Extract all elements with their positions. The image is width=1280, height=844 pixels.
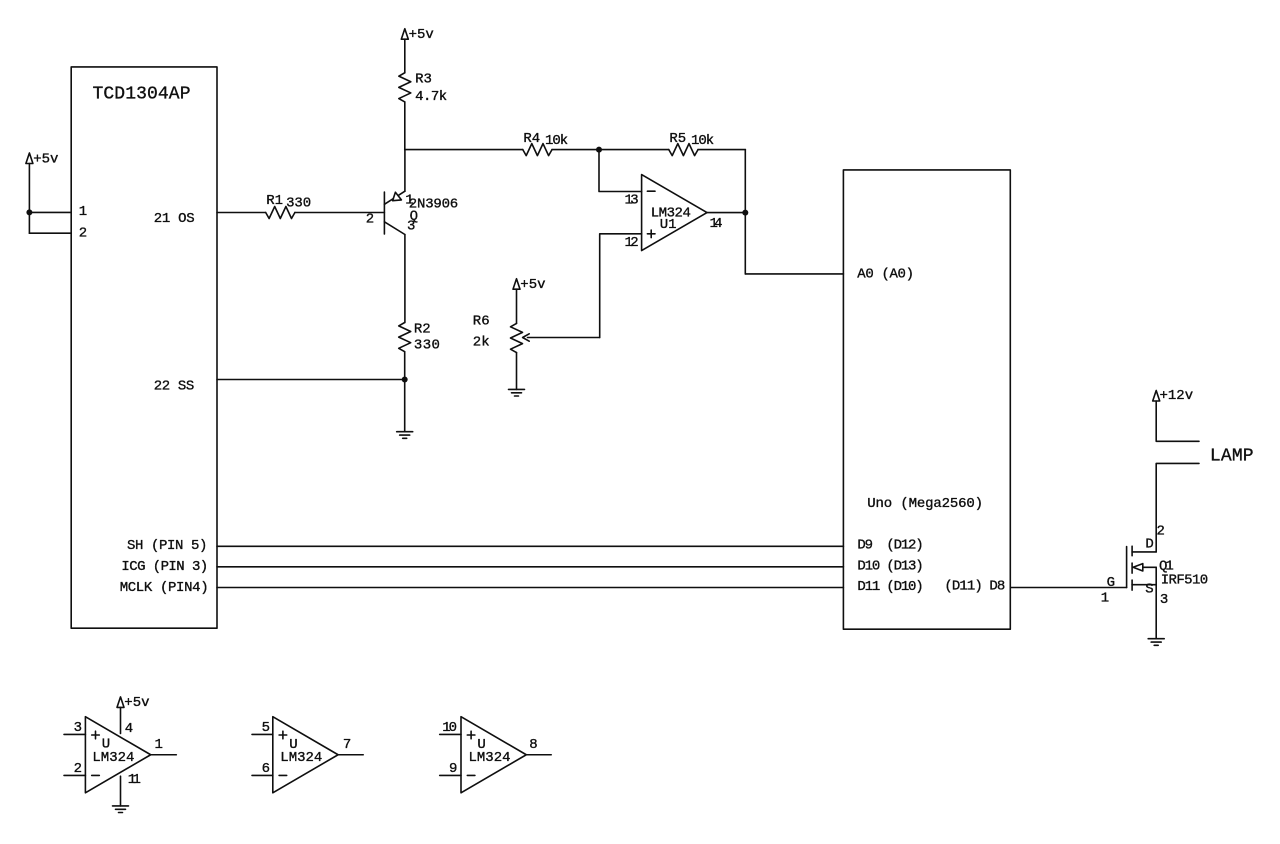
svg-text:4.7k: 4.7k [415,89,447,105]
svg-text:R2: R2 [414,322,431,338]
svg-text:SH (PIN 5): SH (PIN 5) [127,538,207,554]
svg-text:330: 330 [286,195,311,211]
svg-text:2: 2 [79,226,87,242]
svg-text:D10 (D13): D10 (D13) [857,558,923,574]
power +12v [1153,391,1160,402]
svg-text:3: 3 [407,219,415,235]
svg-text:+5v: +5v [124,695,149,711]
svg-text:+5v: +5v [33,151,58,167]
svg-text:10: 10 [442,720,457,736]
svg-text:R5: R5 [669,131,686,147]
potentiometer R6 2k [511,323,523,352]
svg-text:Uno (Mega2560): Uno (Mega2560) [867,496,983,512]
wire +5v to R3 [404,39,406,73]
IC box Uno (Mega2560) [843,170,1010,629]
wire to A0 [745,273,843,275]
wire R4 to R5 [552,149,669,151]
resistor R5 10k [669,144,698,156]
wire inverting input branch [599,150,642,192]
power +5v (R3 top) [401,29,408,40]
svg-text:ICG (PIN 3): ICG (PIN 3) [121,559,208,575]
power +5v (left) [26,153,33,164]
svg-text:G: G [1107,575,1115,591]
svg-text:D9 (D12): D9 (D12) [857,538,923,554]
svg-text:3: 3 [74,720,82,736]
svg-text:2: 2 [1157,524,1165,540]
wire SH to D9 [217,545,843,547]
wire R6 to ground [516,353,518,390]
op-amp U LM324 (pins 10/9/8) [461,717,526,793]
svg-text:5: 5 [262,720,270,736]
ground (op-amp) [113,806,129,813]
svg-text:D: D [1145,537,1153,553]
wire feedback vertical [744,150,746,274]
svg-text:330: 330 [414,338,440,354]
svg-text:14: 14 [710,216,723,232]
svg-text:1: 1 [155,737,163,753]
wire U1 output [707,212,745,214]
wire Q collector up [404,150,406,192]
svg-text:A0 (A0): A0 (A0) [857,267,914,283]
resistor R4 10k [523,144,552,156]
IC box TCD1304AP [71,67,217,628]
wire R5 to output node [698,149,745,151]
wire rail to R4 [405,149,523,151]
resistor R2 330 [399,323,411,352]
svg-text:R4: R4 [523,131,540,147]
wire pin 2 [29,232,71,234]
svg-text:R3: R3 [415,72,432,88]
resistor R1 [266,207,295,219]
svg-text:LAMP: LAMP [1210,447,1254,467]
svg-text:MCLK (PIN4): MCLK (PIN4) [120,580,209,596]
node junction R4/R5 [596,147,602,153]
ground (R2) [397,432,413,439]
wire 22 SS [217,379,405,381]
svg-text:+5v: +5v [409,27,434,43]
svg-text:7: 7 [343,737,351,753]
wire lamp to drain [1156,463,1199,552]
svg-text:1: 1 [1101,591,1109,607]
wire +5v vertical [28,164,30,234]
svg-text:2: 2 [366,212,374,228]
wire MCLK to D11 [217,587,843,589]
svg-text:R1: R1 [266,193,283,209]
op-amp U LM324 (pins 5/6/7) [273,717,338,793]
svg-text:TCD1304AP: TCD1304AP [93,85,191,105]
wire pin 1 [29,211,71,213]
svg-text:3: 3 [1160,592,1168,608]
svg-text:LM324: LM324 [280,750,322,766]
svg-text:2: 2 [74,761,82,777]
svg-text:8: 8 [529,737,537,753]
svg-text:R6: R6 [473,314,490,330]
wire non-inverting input branch [600,234,642,338]
svg-text:6: 6 [262,761,270,777]
wire OS to R1 [217,212,266,214]
wire op-amp pin 11 to ground [120,776,122,806]
op-amp U1 LM324 [642,175,707,251]
svg-text:LM324: LM324 [92,750,134,766]
ground (Q1 source) [1148,639,1164,646]
wire +5v to R6 [516,289,518,323]
op-amp U LM324 (pins 3/2/1) [85,717,150,793]
ground (R6) [509,389,525,396]
svg-text:22 SS: 22 SS [154,378,195,394]
power +5v (R6 top) [513,279,520,290]
svg-text:U1: U1 [660,217,677,233]
wire D8 to gate [1010,587,1126,589]
svg-text:4: 4 [125,721,133,737]
svg-text:11: 11 [128,772,141,788]
resistor R3 4.7k [399,73,411,102]
node junction output [742,210,748,216]
svg-text:13: 13 [625,193,639,209]
svg-text:+12v: +12v [1160,388,1194,404]
wire +12v to lamp [1156,401,1199,441]
svg-text:2k: 2k [473,334,490,350]
svg-text:10k: 10k [545,133,568,149]
svg-text:+5v: +5v [520,277,545,293]
svg-text:12: 12 [625,235,639,251]
node junction SS/R2 [402,377,408,383]
wire R3 to rail [404,102,406,150]
svg-text:10k: 10k [691,133,714,149]
svg-text:9: 9 [449,761,457,777]
transistor Q 2N3906 [383,192,385,234]
svg-text:(D11) D8: (D11) D8 [944,578,1005,594]
wire R2 to ground [404,352,406,432]
svg-text:S: S [1145,582,1153,598]
wire Q emitter down [404,235,406,323]
power +5v (op-amp) [117,697,124,708]
node junction left [26,209,32,215]
wire ICG to D10 [217,566,843,568]
svg-text:LM324: LM324 [469,750,511,766]
transistor Q1 IRF510 [1126,547,1128,588]
svg-text:IRF510: IRF510 [1161,573,1209,589]
svg-text:21 OS: 21 OS [154,211,195,227]
svg-text:D11 (D10): D11 (D10) [857,579,923,595]
wire R1 to Q base [295,212,385,214]
svg-text:1: 1 [79,204,87,220]
